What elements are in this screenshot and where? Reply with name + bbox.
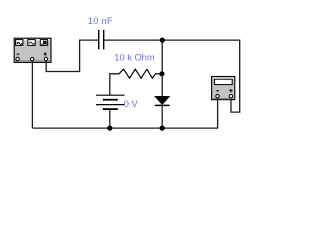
- svg-text:10 nF: 10 nF: [88, 16, 113, 26]
- wire from XFG1 common terminal down to bottom rail: [31, 61, 33, 128]
- wire right side down to multimeter + terminal: [231, 40, 240, 112]
- diode D1: [155, 96, 170, 105]
- wire top rail right segment: [104, 39, 240, 41]
- capacitor C1: [99, 30, 104, 49]
- wire from XFG1 + terminal down, right, and up to top rail: [46, 40, 79, 71]
- multimeter XMM1: [212, 77, 235, 100]
- svg-text:0 V: 0 V: [124, 99, 139, 109]
- wire from diode cathode down to bottom rail: [161, 105, 163, 128]
- wire from top rail junction down to resistor junction: [161, 40, 163, 74]
- svg-text:10 k Ohm: 10 k Ohm: [114, 52, 155, 62]
- battery V1: [96, 95, 125, 128]
- wire resistor right lead to junction: [155, 73, 162, 75]
- junction battery at bottom rail: [107, 126, 112, 131]
- junction at resistor and diode: [159, 71, 164, 76]
- junction diode at bottom rail: [160, 126, 165, 131]
- wire resistor left lead down to battery: [110, 74, 119, 95]
- wire top rail left segment: [79, 39, 98, 41]
- function generator XFG1: [14, 38, 51, 62]
- resistor R1: [119, 69, 156, 78]
- wire bottom rail from XFG1 wire to multimeter - terminal: [32, 98, 217, 128]
- junction at top rail: [160, 38, 165, 43]
- wire from resistor junction down to diode anode: [161, 74, 163, 97]
